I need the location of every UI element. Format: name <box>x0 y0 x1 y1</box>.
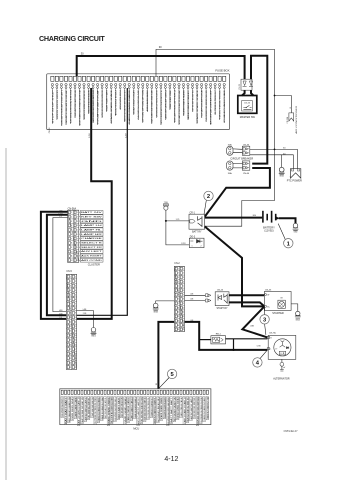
svg-text:KEY ON KEY ON KEY ON: KEY ON KEY ON KEY ON <box>174 396 176 420</box>
wire breaker to CN-60 <box>233 164 242 168</box>
svg-text:CAN HI CAN HI CAN HI: CAN HI CAN HI CAN HI <box>127 397 130 422</box>
wire starter to ground <box>291 304 298 311</box>
svg-text:BATT BATT BATT: BATT BATT BATT <box>170 396 173 423</box>
svg-text:STARTER: STARTER <box>272 312 284 315</box>
svg-text:8: 8 <box>77 243 78 245</box>
svg-text:3: 3 <box>70 285 71 287</box>
svg-text:ACC RLY ACC RLY ACC RL: ACC RLY ACC RLY ACC RL <box>104 397 107 418</box>
node 1 <box>278 224 285 240</box>
svg-text:SEAT SW SEAT SW SEAT SW: SEAT SW SEAT SW SEAT SW <box>187 397 190 422</box>
svg-text:ENG SPEED ENG SPEED ENG S: ENG SPEED ENG SPEED ENG S <box>115 397 117 421</box>
svg-text:BUZZER BUZZER BUZZER: BUZZER BUZZER BUZZER <box>112 396 114 422</box>
svg-text:17: 17 <box>74 349 76 351</box>
svg-text:ROOM LAMP 2 ROOM LAMP 2 ROOM L: ROOM LAMP 2 ROOM LAMP 2 ROOM LAMP 2 <box>60 90 63 125</box>
wire CN-35 to PTC/ground (30) <box>250 155 293 169</box>
svg-text:ROOM LAMP ROOM LAMP ROOM LAM: ROOM LAMP ROOM LAMP ROOM LAM <box>200 90 203 117</box>
svg-text:15: 15 <box>74 340 76 342</box>
wire RB-1 branch down <box>233 339 235 350</box>
svg-text:9: 9 <box>77 247 78 249</box>
svg-text:3: 3 <box>183 277 184 279</box>
wire cluster gnd (thin loop 3) <box>53 218 68 312</box>
svg-text:13: 13 <box>69 331 71 333</box>
svg-text:START RLY START RLY STA: START RLY START RLY STA <box>206 397 209 419</box>
svg-text:L/4: L/4 <box>59 317 61 319</box>
svg-text:LAMP HR: LAMP HR <box>81 233 103 236</box>
ground (starter) <box>296 311 300 315</box>
wire CN-25 to starter B+ <box>229 302 264 306</box>
svg-text:L: L <box>270 349 271 351</box>
svg-text:FUEL SEN FUEL SEN FUEL SEN: FUEL SEN FUEL SEN FUEL SEN <box>141 397 143 423</box>
svg-text:11: 11 <box>182 312 184 314</box>
svg-text:CHARGING CIRCUIT: CHARGING CIRCUIT <box>39 34 105 43</box>
svg-text:A/CON HEATER A/CON HEATER A/CO: A/CON HEATER A/CON HEATER A/CON HEAT <box>78 89 81 125</box>
wire relay to starter B+ <box>205 226 265 306</box>
svg-text:CAN LO CAN LO CAN LO: CAN LO CAN LO CAN LO <box>130 397 133 420</box>
svg-text:ENG SPEED ENG SPEED ENG SPEED: ENG SPEED ENG SPEED ENG SPEED <box>168 397 170 425</box>
node 2 <box>204 200 206 214</box>
svg-text:CABIN LAMP CABIN LAMP CABIN LA: CABIN LAMP CABIN LAMP CABIN LA <box>164 89 167 119</box>
master switch CS-74 <box>238 96 257 114</box>
svg-text:ALTERNATOR: ALTERNATOR <box>273 378 290 381</box>
svg-text:1: 1 <box>192 246 193 248</box>
wire cluster batt (thick loop 1) <box>41 212 68 319</box>
circuit breaker 30A (lower) <box>227 161 233 175</box>
svg-text:MCU: MCU <box>133 427 139 431</box>
svg-text:KEY SW: KEY SW <box>81 216 102 218</box>
wire cluster key (thick loop 2) <box>47 215 68 316</box>
svg-text:SPARE SPARE SPARE: SPARE SPARE SPARE <box>107 396 110 425</box>
svg-text:4: 4 <box>183 281 184 283</box>
svg-text:AIR COND: AIR COND <box>81 259 103 262</box>
wire CN-2 to start relay pin 2 (L4B) <box>185 300 206 302</box>
svg-text:3: 3 <box>77 221 78 223</box>
svg-text:10: 10 <box>177 307 179 309</box>
svg-text:GND GND GND: GND GND GND <box>72 396 74 420</box>
svg-text:1: 1 <box>77 212 78 214</box>
alternator bolt terminal <box>280 359 285 371</box>
wire CN-2 to alternator L (thick) <box>185 322 268 350</box>
svg-text:1: 1 <box>71 212 72 214</box>
svg-text:4: 4 <box>71 225 72 227</box>
node 3 <box>265 308 266 335</box>
starter CN-45 <box>264 290 291 315</box>
connector CN-5 <box>66 271 76 369</box>
connector CN-56A / CLUSTER <box>68 207 105 266</box>
svg-text:14: 14 <box>177 325 179 327</box>
battery (12V92) <box>263 211 279 233</box>
svg-text:13: 13 <box>74 331 76 333</box>
svg-text:1: 1 <box>183 268 184 270</box>
ground (battery) <box>293 223 298 228</box>
svg-text:DOME LAMP DOME LAMP DOME LAM: DOME LAMP DOME LAMP DOME LAM <box>74 90 77 117</box>
svg-text:GND: GND <box>81 221 105 223</box>
svg-text:19: 19 <box>74 358 76 360</box>
svg-text:12: 12 <box>74 326 76 328</box>
wire CN-5 to ground <box>77 311 94 328</box>
wire RB-1 right to alternator B <box>226 338 268 340</box>
svg-text:CN-25: CN-25 <box>217 289 224 291</box>
svg-text:TURN SIGNAL TURN SIGNAL TURN S: TURN SIGNAL TURN SIGNAL TURN SIGNA <box>69 89 72 123</box>
svg-text:METER SET METER SET METER SET: METER SET METER SET METER SET <box>125 89 127 121</box>
svg-text:2: 2 <box>75 281 76 283</box>
svg-text:5: 5 <box>71 230 72 232</box>
svg-text:MCU MCU MCU: MCU MCU MCU <box>120 89 122 109</box>
svg-text:OPTION OPTION OPTION: OPTION OPTION OPTION <box>143 89 145 122</box>
svg-text:CN-5: CN-5 <box>66 271 72 273</box>
svg-text:5: 5 <box>77 230 78 232</box>
svg-text:1: 1 <box>290 176 292 177</box>
svg-text:30A: 30A <box>228 172 232 175</box>
svg-text:13: 13 <box>177 320 179 322</box>
svg-text:14: 14 <box>69 335 71 337</box>
svg-text:10: 10 <box>71 251 73 253</box>
svg-text:7: 7 <box>70 303 71 305</box>
svg-text:BACKUP ALARM BACKUP ALARM BACK: BACKUP ALARM BACKUP ALARM BACKUP AL <box>160 90 163 124</box>
svg-text:20: 20 <box>69 362 71 364</box>
svg-text:BUZZER BUZZER BUZZER: BUZZER BUZZER BUZZER <box>164 397 166 418</box>
svg-text:HORN HORN HORN: HORN HORN HORN <box>57 89 59 119</box>
svg-text:SELECT FR: SELECT FR <box>81 247 103 249</box>
svg-text:8: 8 <box>70 308 71 310</box>
wire CN-2 to ground <box>156 301 175 303</box>
svg-text:B50: B50 <box>253 215 256 217</box>
svg-text:KEY ON KEY ON KEY ON: KEY ON KEY ON KEY ON <box>122 397 124 417</box>
svg-text:9: 9 <box>70 313 71 315</box>
svg-text:GND GND GND: GND GND GND <box>178 396 180 419</box>
svg-text:6: 6 <box>183 290 184 292</box>
svg-text:AUX LEFT: AUX LEFT <box>81 250 103 253</box>
wire CN-35 to PTC power (30) <box>250 149 298 168</box>
svg-text:FUEL SENDER FUEL SENDER FUEL S: FUEL SENDER FUEL SENDER FUEL SEN <box>206 90 208 122</box>
svg-text:17: 17 <box>69 349 71 351</box>
svg-text:16: 16 <box>74 344 76 346</box>
svg-text:15: 15 <box>177 329 179 331</box>
wire breaker to CN-35 <box>233 149 242 153</box>
svg-text:9: 9 <box>183 303 184 305</box>
svg-text:T/M SOL T/M SOL T/M SOL: T/M SOL T/M SOL T/M SOL <box>220 90 222 119</box>
svg-text:AIR CONDITIONER: AIR CONDITIONER <box>295 105 298 134</box>
node 4 <box>260 350 267 359</box>
svg-text:30: 30 <box>289 107 291 109</box>
svg-text:10: 10 <box>76 251 78 253</box>
svg-text:9: 9 <box>178 303 179 305</box>
svg-text:PTC POWER: PTC POWER <box>287 179 302 182</box>
svg-text:1.25R: 1.25R <box>125 133 127 138</box>
svg-text:KEY ON KEY ON KEY ON: KEY ON KEY ON KEY ON <box>69 396 71 421</box>
svg-text:3: 3 <box>71 221 72 223</box>
svg-text:7: 7 <box>71 238 72 240</box>
svg-text:3: 3 <box>75 285 76 287</box>
circuit breaker 30A (upper) <box>227 143 233 155</box>
svg-text:1.25R: 1.25R <box>181 243 186 245</box>
svg-text:LAMP LH: LAMP LH <box>81 224 103 227</box>
svg-text:6: 6 <box>178 290 179 292</box>
wire master switch to main bus <box>251 56 267 164</box>
svg-text:FUSE BOX: FUSE BOX <box>215 69 229 73</box>
svg-text:L/2: L/2 <box>59 216 61 218</box>
wire ground branch <box>281 155 283 168</box>
connector CN-2 <box>174 263 184 331</box>
svg-text:WIPER FR WIPER FR WIPER FR: WIPER FR WIPER FR WIPER FR <box>84 89 86 119</box>
svg-text:8: 8 <box>183 299 184 301</box>
svg-text:6: 6 <box>70 299 71 301</box>
svg-text:ENG SPEED ENG SPEED E: ENG SPEED ENG SPEED E <box>62 397 64 417</box>
svg-text:CN-60: CN-60 <box>243 173 250 175</box>
svg-text:CHARGE IN CHARGE IN CHARG: CHARGE IN CHARGE IN CHARG <box>203 397 206 421</box>
svg-text:OIL PRESS OIL PRESS OIL PRE: OIL PRESS OIL PRESS OIL PRE <box>201 396 203 422</box>
svg-text:CN-2: CN-2 <box>174 263 180 265</box>
svg-text:STOP LAMP STOP LAMP STOP LAMP: STOP LAMP STOP LAMP STOP LAMP <box>97 89 100 124</box>
svg-text:SPARE SPARE SPARE: SPARE SPARE SPARE <box>160 396 163 420</box>
svg-text:4: 4 <box>70 290 71 292</box>
svg-text:21: 21 <box>69 367 71 369</box>
svg-text:10: 10 <box>182 307 184 309</box>
svg-text:12: 12 <box>71 260 73 262</box>
svg-text:GND2: GND2 <box>91 336 96 338</box>
svg-text:15: 15 <box>182 329 184 331</box>
wire CN-25 to starter W <box>229 294 264 296</box>
junction <box>274 95 276 97</box>
svg-text:8: 8 <box>75 308 76 310</box>
svg-text:12: 12 <box>177 316 179 318</box>
svg-text:8: 8 <box>178 299 179 301</box>
wire fuse box ACC riser to air conditioner and relay coil <box>156 49 275 226</box>
svg-text:GND GND GND: GND GND GND <box>125 396 127 424</box>
svg-text:BEACON BEACON BEACON: BEACON BEACON BEACON <box>87 90 90 114</box>
svg-text:7: 7 <box>75 303 76 305</box>
svg-text:GND3: GND3 <box>153 311 158 313</box>
svg-text:ECU ECU ECU: ECU ECU ECU <box>116 89 118 115</box>
svg-text:5: 5 <box>178 286 179 288</box>
svg-text:1: 1 <box>178 268 179 270</box>
svg-text:CS-74: CS-74 <box>244 103 251 105</box>
svg-text:2: 2 <box>183 273 184 275</box>
wire fuse box to CN-5 (thick feed) <box>77 88 112 319</box>
svg-text:1: 1 <box>75 276 76 278</box>
svg-text:FUEL SEN FUEL SEN FUEL: FUEL SEN FUEL SEN FUEL <box>194 397 196 418</box>
svg-text:2: 2 <box>178 273 179 275</box>
ECU connector MCU <box>60 389 211 431</box>
svg-text:12: 12 <box>69 326 71 328</box>
relay CN-25 START RY <box>205 289 229 310</box>
svg-text:7: 7 <box>183 294 184 296</box>
ground (PTC) <box>279 167 284 172</box>
svg-text:GND1: GND1 <box>295 319 300 321</box>
svg-text:10: 10 <box>74 317 76 319</box>
svg-text:WORK LAMP RR WORK LAMP RR WORK: WORK LAMP RR WORK LAMP RR WORK LAMP <box>178 90 181 125</box>
svg-text:18: 18 <box>74 353 76 355</box>
svg-text:12: 12 <box>76 260 78 262</box>
svg-text:SELECT R: SELECT R <box>81 243 103 245</box>
svg-text:19: 19 <box>69 358 71 360</box>
relay CR-1 BATT RY <box>189 212 205 233</box>
svg-text:5: 5 <box>183 286 184 288</box>
connector CS-74 <box>239 77 253 90</box>
svg-text:CS-74: CS-74 <box>239 84 241 89</box>
svg-text:5: 5 <box>75 294 76 296</box>
svg-text:CIGAR CIGAR CIGAR: CIGAR CIGAR CIGAR <box>133 89 136 114</box>
svg-text:CAN LO CAN LO CAN LO: CAN LO CAN LO CAN LO <box>183 396 186 423</box>
svg-text:4-12: 4-12 <box>164 456 178 463</box>
svg-text:8: 8 <box>71 243 72 245</box>
svg-text:START RLY START RLY START RL: START RLY START RLY START RL <box>154 397 157 424</box>
svg-text:SPARE SPARE SPARE: SPARE SPARE SPARE <box>110 89 113 123</box>
svg-text:CN-56: CN-56 <box>49 127 51 134</box>
svg-text:11: 11 <box>69 322 71 324</box>
svg-text:14: 14 <box>74 335 76 337</box>
svg-text:TEMP SEN TEMP SEN TEMP SE: TEMP SEN TEMP SEN TEMP SE <box>145 397 147 421</box>
svg-text:1: 1 <box>244 77 245 79</box>
alternator CN-7A <box>267 332 296 360</box>
svg-text:CHARGE: CHARGE <box>81 237 103 240</box>
svg-text:RB-1: RB-1 <box>216 333 222 335</box>
wire CN-60 to battery relay node <box>205 168 270 217</box>
svg-text:CN-204: CN-204 <box>287 117 289 124</box>
svg-text:LAMP OUT LAMP OUT LAMP OU: LAMP OUT LAMP OUT LAMP OU <box>84 397 87 421</box>
wire CN-2 to MCU (thick) <box>158 322 174 389</box>
svg-text:CHARGE IN CHARGE IN CHARGE: CHARGE IN CHARGE IN CHARGE <box>97 397 100 422</box>
svg-text:START RLY START RLY STAR: START RLY START RLY STAR <box>101 397 104 420</box>
svg-text:KEY SW KEY SW KEY SW: KEY SW KEY SW KEY SW <box>192 90 194 111</box>
svg-text:M: M <box>281 298 283 300</box>
ground (CN-2) <box>153 303 158 308</box>
svg-text:BATT 24V: BATT 24V <box>81 211 103 214</box>
ground (CN-5) <box>91 328 96 333</box>
svg-text:MASTER SW: MASTER SW <box>240 116 256 119</box>
svg-text:CN-35: CN-35 <box>243 144 250 146</box>
svg-text:1: 1 <box>70 276 71 278</box>
svg-text:3: 3 <box>178 277 179 279</box>
svg-text:AUX RIGHT: AUX RIGHT <box>81 255 103 258</box>
svg-text:CN-7A: CN-7A <box>269 332 276 335</box>
svg-text:SEAT SW SEAT SW SEAT S: SEAT SW SEAT SW SEAT S <box>134 397 137 418</box>
svg-text:LAMP HL: LAMP HL <box>81 228 102 231</box>
svg-text:BATT RY: BATT RY <box>192 230 202 233</box>
svg-text:16: 16 <box>69 344 71 346</box>
svg-text:10: 10 <box>69 317 71 319</box>
svg-text:OIL PRESS OIL PRESS OIL: OIL PRESS OIL PRESS OIL <box>148 397 150 419</box>
svg-text:11: 11 <box>71 256 73 258</box>
svg-text:WIPER RR WIPER RR WIPER RR: WIPER RR WIPER RR WIPER RR <box>102 90 104 118</box>
svg-text:ACC RLY ACC RLY ACC RLY: ACC RLY ACC RLY ACC RLY <box>157 396 160 421</box>
wire CS-74 to master switch pins <box>242 90 245 95</box>
svg-text:9: 9 <box>75 313 76 315</box>
wire T/S junction to relay (1.25) <box>166 220 189 222</box>
connector CN-60 <box>242 161 250 175</box>
svg-text:BATT BATT BATT: BATT BATT BATT <box>64 396 67 424</box>
junction <box>232 349 234 351</box>
svg-text:2: 2 <box>207 194 210 200</box>
svg-text:2: 2 <box>70 281 71 283</box>
svg-text:STOP STOP STOP: STOP STOP STOP <box>52 89 54 124</box>
svg-text:CAN LO CAN LO CAN LO: CAN LO CAN LO CAN LO <box>78 396 81 424</box>
svg-text:11: 11 <box>74 322 76 324</box>
junction <box>165 220 167 222</box>
svg-text:12: 12 <box>182 316 184 318</box>
svg-text:OIL PRESS OIL PRESS OIL PRES: OIL PRESS OIL PRESS OIL PRES <box>95 397 97 424</box>
svg-text:CHARGE IN CHARGE IN C: CHARGE IN CHARGE IN C <box>150 397 153 417</box>
svg-text:CAN HI CAN HI CAN HI: CAN HI CAN HI CAN HI <box>74 397 77 418</box>
svg-text:6: 6 <box>71 234 72 236</box>
fusible link T/S5 <box>163 202 168 210</box>
svg-text:START START START: START START START <box>106 89 109 111</box>
svg-text:ETC VALVE ETC VALVE ETC VALVE: ETC VALVE ETC VALVE ETC VALVE <box>223 89 226 122</box>
svg-text:TEMP SEN TEMP SEN TEM: TEMP SEN TEMP SEN TEM <box>92 397 94 417</box>
svg-text:14: 14 <box>182 325 184 327</box>
svg-text:21: 21 <box>74 367 76 369</box>
svg-text:13: 13 <box>182 320 184 322</box>
svg-text:CLUSTER: CLUSTER <box>88 263 100 267</box>
svg-text:15: 15 <box>69 340 71 342</box>
svg-text:4: 4 <box>77 225 78 227</box>
svg-text:BACK BUZZER BACK BUZZER BACK B: BACK BUZZER BACK BUZZER BACK BUZZ <box>92 89 95 122</box>
svg-text:2: 2 <box>71 217 72 219</box>
svg-text:30A: 30A <box>228 143 232 146</box>
svg-text:LAMP OUT LAMP OUT LAMP OUT: LAMP OUT LAMP OUT LAMP OUT <box>137 396 140 424</box>
wire T/S5 down to DO-3 <box>166 210 189 245</box>
svg-text:GND5: GND5 <box>279 176 284 178</box>
svg-text:12V SOCKET 12V SOCKET 12V SO: 12V SOCKET 12V SOCKET 12V SO <box>156 90 158 118</box>
svg-text:AUDIO AUDIO AUDIO: AUDIO AUDIO AUDIO <box>146 89 149 111</box>
svg-text:11: 11 <box>76 256 78 258</box>
svg-text:CAN HI CAN HI CAN HI: CAN HI CAN HI CAN HI <box>180 397 183 417</box>
wire CN-2 to start relay pin 1 (L4B) <box>185 294 206 296</box>
connector CN-204 air conditioner <box>287 105 298 134</box>
resistor PTC POWER <box>290 169 301 178</box>
svg-text:CIRCUIT BREAKER: CIRCUIT BREAKER <box>230 158 253 161</box>
svg-text:SEAT HEATER SEAT HEATER SEAT H: SEAT HEATER SEAT HEATER SEAT HEATE <box>151 89 154 123</box>
svg-text:AIR COMP AIR COMP AIR COMP: AIR COMP AIR COMP AIR COMP <box>210 89 213 124</box>
wire battery to ground <box>279 218 296 223</box>
svg-text:WORK LAMP FR WORK LAMP FR WORK: WORK LAMP FR WORK LAMP FR WORK LA <box>173 90 176 123</box>
node 5 <box>159 378 169 389</box>
svg-text:LAMP OUT LAMP OUT LAMP O: LAMP OUT LAMP OUT LAMP O <box>190 397 193 420</box>
svg-text:FUEL SEN FUEL SEN FUEL: FUEL SEN FUEL SEN FUEL <box>89 397 91 419</box>
svg-text:11: 11 <box>177 312 179 314</box>
svg-text:FUEL PUMP FUEL PUMP FUEL PUMP: FUEL PUMP FUEL PUMP FUEL PUMP <box>138 89 140 119</box>
svg-text:4: 4 <box>75 290 76 292</box>
diode DO-3 <box>189 236 204 247</box>
svg-text:OIL PRESS OIL PRESS OIL P: OIL PRESS OIL PRESS OIL P <box>215 89 217 114</box>
svg-text:START RY: START RY <box>216 307 228 310</box>
wire relay to battery <box>205 217 263 219</box>
svg-text:5: 5 <box>70 294 71 296</box>
svg-text:MAIN ACC MAIN ACC MAIN ACC: MAIN ACC MAIN ACC MAIN ACC <box>187 89 190 119</box>
svg-text:6: 6 <box>77 234 78 236</box>
svg-text:18: 18 <box>69 353 71 355</box>
svg-text:CHARGE CHARGE CHARGE: CHARGE CHARGE CHARGE <box>128 89 131 124</box>
junction <box>274 149 276 151</box>
svg-text:HEATER HEATER HEATER: HEATER HEATER HEATER <box>182 89 185 115</box>
svg-text:SPARE SPARE SPARE: SPARE SPARE SPARE <box>196 89 199 123</box>
svg-text:(12V92): (12V92) <box>264 229 273 233</box>
svg-text:2: 2 <box>201 246 202 248</box>
wire starter B+ to alternator B (0.8B) <box>242 306 267 337</box>
svg-text:W: W <box>267 295 269 297</box>
wire fuse box to CN-5 (key feed) <box>77 88 128 315</box>
resistor RB-1 <box>211 333 226 344</box>
svg-text:6: 6 <box>75 299 76 301</box>
svg-text:TEMP SEN TEMP SEN TEMP SEN: TEMP SEN TEMP SEN TEMP SEN <box>197 397 199 425</box>
wire fuse box to CS-74 (30) <box>77 56 245 79</box>
svg-text:SEAT SW SEAT SW SEAT SW: SEAT SW SEAT SW SEAT SW <box>81 397 84 423</box>
svg-text:7: 7 <box>77 238 78 240</box>
svg-text:20: 20 <box>74 362 76 364</box>
svg-text:SPARE SPARE SPARE: SPARE SPARE SPARE <box>169 89 172 109</box>
wire branch to CN-204 air conditioner <box>275 96 292 113</box>
wire RB-1 left to thick vertical <box>199 339 211 341</box>
svg-text:1.25: 1.25 <box>176 219 180 221</box>
